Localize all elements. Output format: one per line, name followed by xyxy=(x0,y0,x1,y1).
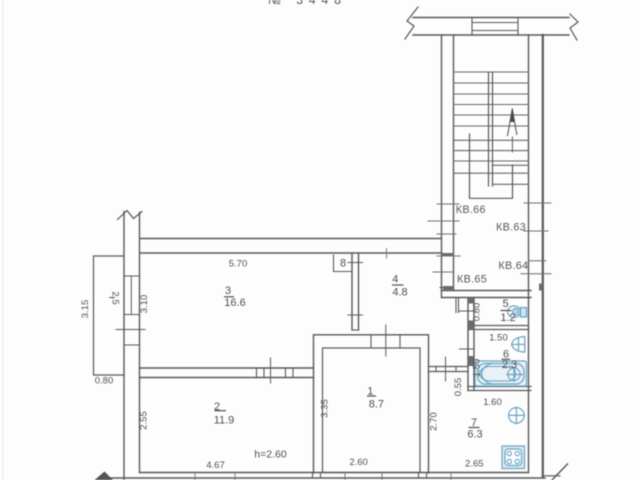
door jambs room3/room2 xyxy=(256,368,258,378)
dark wall fill segments xyxy=(442,253,543,366)
svg-text:1.50: 1.50 xyxy=(472,359,483,378)
svg-text:КВ.66: КВ.66 xyxy=(456,204,486,216)
stove inner xyxy=(505,449,522,466)
svg-text:КВ.64: КВ.64 xyxy=(498,260,528,272)
bottom-left corner mark xyxy=(95,472,114,480)
bathtub inner xyxy=(478,364,525,385)
svg-text:3.10: 3.10 xyxy=(139,295,150,314)
stairwell left wall outer xyxy=(441,35,443,298)
room1 door tick xyxy=(385,325,387,356)
svg-text:11.9: 11.9 xyxy=(214,415,235,427)
stair treads left flight xyxy=(454,72,529,184)
right break zigzag xyxy=(570,14,578,40)
kitchen sink circle xyxy=(509,408,525,424)
svg-text:2.60: 2.60 xyxy=(349,457,368,468)
stair central stringer xyxy=(488,72,490,186)
bottom wall inner line xyxy=(140,472,529,474)
left outer wall line A xyxy=(123,212,125,480)
svg-text:2.3: 2.3 xyxy=(502,359,517,371)
toilet bowl xyxy=(508,306,521,318)
stair window left jamb xyxy=(471,18,473,36)
kitchen vestibule wall lower xyxy=(429,371,469,373)
svg-text:2.55: 2.55 xyxy=(139,411,150,430)
bathtub left arc xyxy=(480,367,489,382)
svg-text:1.2: 1.2 xyxy=(500,312,515,324)
stove burners xyxy=(507,451,511,455)
stair treads right flight extra xyxy=(493,164,529,166)
top wall small tick xyxy=(386,249,388,259)
bath block left wall inner xyxy=(473,298,475,391)
stair window inner lines xyxy=(472,22,518,24)
svg-text:4.67: 4.67 xyxy=(206,460,225,471)
kitchen door jambs xyxy=(435,367,437,372)
svg-text:6.3: 6.3 xyxy=(467,429,482,441)
left break zigzag xyxy=(405,7,418,39)
bottom wall small ticks xyxy=(195,473,451,480)
apartment top wall inner xyxy=(140,252,442,254)
svg-text:16.6: 16.6 xyxy=(224,297,245,309)
stair arrow head xyxy=(510,108,515,122)
bath block left wall outer xyxy=(467,298,469,391)
top building wall upper line xyxy=(413,17,569,19)
stair up arrow legs xyxy=(508,109,513,136)
left wall window sill 3 xyxy=(124,344,140,346)
svg-text:КВ.63: КВ.63 xyxy=(496,222,526,234)
left wall break zigzag xyxy=(118,211,143,220)
kitchen door tick xyxy=(445,357,447,381)
apartment top wall outer xyxy=(140,238,442,240)
left wall window sill 1 xyxy=(124,275,140,277)
svg-text:3.35: 3.35 xyxy=(320,399,331,418)
stairwell bottom wall upper line xyxy=(442,290,532,292)
toilet/bath divider wall xyxy=(468,325,529,327)
svg-text:№ 3448: № 3448 xyxy=(268,0,347,7)
stove outer xyxy=(502,446,525,469)
bottom right corner line xyxy=(543,475,560,477)
svg-text:1.50: 1.50 xyxy=(489,333,508,344)
svg-text:2.65: 2.65 xyxy=(465,459,484,470)
left outer wall line B xyxy=(139,213,141,473)
kitchen sink cross xyxy=(515,407,517,425)
svg-text:0.55: 0.55 xyxy=(453,378,464,397)
bath sink bowl xyxy=(512,337,525,352)
stairwell wall level ticks left xyxy=(428,204,460,272)
stair window right jamb xyxy=(517,18,519,36)
balcony outline xyxy=(94,256,125,375)
top building wall lower line xyxy=(413,34,569,36)
toilet bowl inner xyxy=(513,308,519,315)
bath door tick xyxy=(460,348,475,350)
svg-text:0.80: 0.80 xyxy=(472,303,483,322)
divider end cap xyxy=(352,329,359,331)
stairwell wall level ticks right xyxy=(521,203,551,274)
label 8 box xyxy=(334,255,353,272)
svg-text:5.70: 5.70 xyxy=(229,259,248,270)
bathtub left arc 2 xyxy=(482,364,494,385)
tick room3/room2 wall xyxy=(270,358,272,383)
bottom-right diagonal mark xyxy=(551,464,568,480)
bathtub tap cross xyxy=(513,367,515,382)
kitchen vestibule wall upper xyxy=(429,366,469,368)
svg-text:8.7: 8.7 xyxy=(369,399,384,411)
svg-text:0.80: 0.80 xyxy=(95,376,114,387)
stair lower landing outline xyxy=(470,134,513,198)
bathtub tap circle xyxy=(508,368,520,380)
bottom wall outer line xyxy=(110,477,545,479)
svg-text:h=2.60: h=2.60 xyxy=(254,449,287,461)
svg-text:3: 3 xyxy=(225,285,231,297)
svg-text:КВ.65: КВ.65 xyxy=(457,274,487,286)
svg-text:8: 8 xyxy=(340,258,346,270)
svg-text:4.8: 4.8 xyxy=(392,287,407,299)
stairwell right wall outer thick xyxy=(542,35,544,477)
entry door jamb stub xyxy=(455,298,457,313)
svg-text:3.15: 3.15 xyxy=(80,300,91,319)
left wall window sill 2 xyxy=(124,314,140,316)
bottom wall junction jambs xyxy=(312,473,314,479)
svg-text:2.70: 2.70 xyxy=(429,412,440,431)
svg-text:5: 5 xyxy=(502,298,508,310)
room1 outer wall xyxy=(314,335,429,473)
bath sink cross xyxy=(518,338,520,351)
divider wall room3/room4 xyxy=(351,253,353,330)
stairwell left wall inner xyxy=(453,35,455,291)
stairwell right wall inner xyxy=(528,35,530,473)
toilet tank xyxy=(521,308,527,318)
stairwell bottom wall lower line xyxy=(442,297,532,299)
room1 door jambs xyxy=(370,335,372,348)
balcony fraction tick xyxy=(109,297,115,299)
stair arrow tail xyxy=(511,137,513,152)
stairwell bottom wall left step xyxy=(440,287,454,289)
svg-text:1.60: 1.60 xyxy=(483,397,502,408)
divider ticks xyxy=(348,262,363,264)
bathtub outer xyxy=(475,361,527,386)
room1 inner wall xyxy=(323,348,421,473)
bath block bottom wall xyxy=(468,386,531,388)
toilet door tick xyxy=(460,310,475,312)
bathtub bowl xyxy=(482,367,516,382)
left wall window mid mullion xyxy=(130,276,132,315)
left wall tick xyxy=(116,329,145,331)
scan edge artifact xyxy=(2,0,4,480)
wall room3/room2 upper line xyxy=(140,367,314,369)
wall room3/room2 lower line xyxy=(140,377,314,379)
svg-text:4: 4 xyxy=(392,274,398,286)
